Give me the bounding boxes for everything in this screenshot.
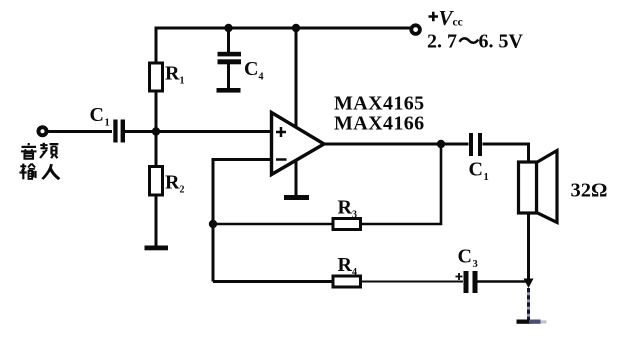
svg-text:R: R bbox=[338, 197, 353, 219]
svg-text:4: 4 bbox=[259, 72, 264, 83]
svg-text:6. 5V: 6. 5V bbox=[479, 31, 524, 53]
svg-text:C: C bbox=[90, 104, 104, 126]
svg-text:R: R bbox=[165, 63, 180, 85]
svg-text:C: C bbox=[469, 159, 483, 181]
svg-text:cc: cc bbox=[453, 17, 463, 29]
svg-text:3: 3 bbox=[352, 210, 357, 221]
svg-text:4: 4 bbox=[352, 267, 357, 278]
svg-text:1: 1 bbox=[180, 76, 185, 87]
svg-text:1: 1 bbox=[105, 118, 110, 129]
svg-text:MAX4166: MAX4166 bbox=[334, 113, 425, 135]
svg-text:MAX4165: MAX4165 bbox=[334, 93, 425, 115]
svg-text:2. 7: 2. 7 bbox=[427, 31, 457, 53]
svg-text:3: 3 bbox=[473, 259, 478, 270]
svg-text:2: 2 bbox=[180, 185, 185, 196]
svg-text:C: C bbox=[458, 246, 472, 268]
svg-text:32Ω: 32Ω bbox=[571, 180, 608, 202]
svg-text:C: C bbox=[244, 58, 258, 80]
svg-text:R: R bbox=[165, 172, 180, 194]
svg-text:1: 1 bbox=[484, 172, 489, 183]
svg-text:R: R bbox=[338, 254, 353, 276]
